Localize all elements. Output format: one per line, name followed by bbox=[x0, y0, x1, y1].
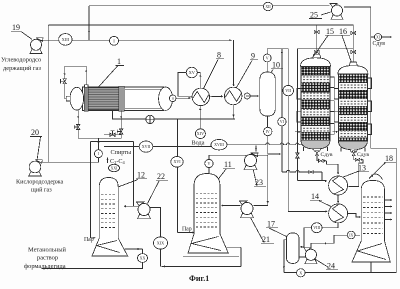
svg-text:Спирты: Спирты bbox=[111, 149, 132, 156]
svg-text:Фиг.1: Фиг.1 bbox=[189, 274, 209, 283]
valve double on left drop bbox=[77, 125, 80, 128]
wire steam arrow into column 11 bbox=[178, 232, 194, 234]
instrument circle IX bbox=[347, 231, 355, 239]
instrument circle on oxygen riser bbox=[94, 150, 102, 158]
pump 22 bbox=[138, 215, 151, 219]
wire pump 23 to pump 21 drop bbox=[254, 155, 268, 205]
reactor 15 bottom dome bbox=[301, 140, 330, 149]
reactor 16 band separators bbox=[338, 82, 367, 84]
wire arrow into reactor 16 left wall bbox=[333, 131, 338, 133]
reactor 1 shell shading lines bbox=[125, 88, 162, 90]
svg-text:XVIII: XVIII bbox=[214, 142, 224, 147]
wire reactor 16 blowoff tee with valve and arrow bbox=[354, 159, 363, 161]
wire vertical x=48 feed split down to oxygen line bbox=[47, 25, 49, 162]
svg-text:XXI: XXI bbox=[111, 166, 118, 170]
column 11 trays bbox=[196, 192, 218, 194]
svg-text:11: 11 bbox=[224, 160, 232, 169]
instrument circle V bbox=[263, 54, 271, 62]
wire V up to header A bbox=[266, 49, 268, 54]
heat exchanger 14 bbox=[329, 204, 348, 223]
instrument circle XII bbox=[263, 2, 272, 10]
valve on long vertical bbox=[296, 153, 299, 156]
svg-text:V: V bbox=[208, 161, 211, 166]
wire pump 24 discharge through IX to column 18 bbox=[311, 235, 347, 249]
vessel 10 bbox=[260, 72, 276, 116]
reactor 1 tube bundle bbox=[86, 88, 122, 110]
wire reactor 1 bottom left drop with valve bbox=[78, 110, 121, 138]
wire exchanger 13 inlet from long vertical bbox=[297, 180, 326, 182]
wire XV loop into exchanger 8 left bbox=[178, 73, 192, 97]
reactor 1 left head bbox=[70, 87, 84, 110]
reactor 15 side stubs left bbox=[297, 89, 301, 100]
wire II to exchanger 8 bbox=[176, 97, 190, 99]
wire pump 19 discharge line y=40 to exchanger 9 bbox=[42, 39, 232, 41]
wire column 18 bottom nozzle to return line bbox=[370, 262, 372, 273]
wire oxygen riser joining manifold bbox=[97, 138, 99, 162]
wire pump 25 discharge to right manifold bbox=[344, 7, 396, 273]
column 18 shell bbox=[361, 180, 384, 241]
instrument circle v above column 11 bbox=[208, 168, 210, 173]
svg-text:XII: XII bbox=[265, 5, 271, 9]
node pump19 outlet bbox=[42, 39, 49, 41]
valve stem on bypass bbox=[61, 80, 65, 82]
svg-text:Сдув: Сдув bbox=[357, 152, 369, 158]
instrument circle with cross on water line bbox=[146, 115, 154, 123]
wire IX to column 18 base bbox=[355, 234, 360, 236]
svg-text:12: 12 bbox=[137, 171, 145, 180]
svg-text:XIV: XIV bbox=[197, 131, 204, 136]
svg-text:9: 9 bbox=[251, 52, 255, 61]
svg-text:X: X bbox=[299, 270, 302, 275]
wire exchanger 14 to column 18 feed bbox=[348, 213, 361, 217]
instrument circle XIII bbox=[59, 34, 72, 46]
instrument circle X bbox=[297, 269, 306, 277]
reactor 1 left tube sheet flange bbox=[84, 86, 88, 111]
reactor 15 legs bbox=[303, 147, 305, 151]
wire steam drop to column 12 bbox=[90, 142, 92, 238]
wire vertical through XVI bbox=[177, 119, 179, 233]
svg-text:держащий газ: держащий газ bbox=[3, 65, 41, 72]
wire reactor 1 bypass up-over-left bbox=[65, 66, 87, 99]
wire pump 22 reflux into column 12 bbox=[125, 205, 138, 207]
svg-text:V: V bbox=[266, 55, 269, 60]
svg-text:XX: XX bbox=[140, 255, 146, 260]
svg-text:Метанольный: Метанольный bbox=[28, 247, 66, 254]
wire curved arrow into column 18 dome bbox=[372, 174, 383, 179]
svg-text:IV: IV bbox=[266, 130, 270, 134]
reactor 1 shell bbox=[83, 87, 164, 110]
wire exchanger 14 bottom through VIII to vessel 17 bbox=[322, 223, 338, 228]
wire pump 20 discharge oxygen line bbox=[42, 161, 99, 163]
column 11 skirt with reboiler zigzag bbox=[188, 234, 228, 253]
reactor 15 top cap nozzle bbox=[313, 54, 321, 58]
svg-text:VII: VII bbox=[285, 88, 291, 93]
wire reactor 15 feed drop with valves bbox=[316, 25, 318, 56]
column 18 skirt with reboiler zigzag bbox=[352, 241, 390, 262]
instrument circle XVI bbox=[171, 157, 183, 168]
pump 25 recycle compressor bbox=[331, 15, 343, 19]
wire column 11 bottoms step bbox=[227, 246, 242, 248]
instrument circle XX bbox=[138, 254, 148, 263]
wire VI line valve feed across bbox=[282, 170, 322, 172]
wire recycle gas top line y=6 to pump 25 bbox=[89, 5, 330, 7]
valve on reactor 15 feed upper bbox=[314, 30, 317, 33]
column 18 trays bbox=[363, 196, 382, 198]
vessel 17 separator bbox=[286, 233, 299, 263]
reactor 16 body with catalyst beds bbox=[338, 74, 367, 83]
instrument circle XV bbox=[186, 67, 197, 78]
svg-text:10: 10 bbox=[272, 61, 280, 70]
valve on reactor 16 feed lower bbox=[351, 50, 354, 53]
reactor 16 bottom dome bbox=[338, 141, 367, 150]
reactor 15 top dome bbox=[301, 58, 331, 67]
svg-text:Кислородсодержа: Кислородсодержа bbox=[16, 179, 63, 186]
wire vent arrow Sduv bbox=[382, 36, 391, 38]
wire drop into exchanger 9 top bbox=[233, 40, 235, 84]
wire reactor 16 feed drop with valves bbox=[352, 25, 354, 64]
wire vessel 10 bottom through IV bbox=[267, 116, 269, 127]
svg-text:XVII: XVII bbox=[142, 144, 151, 149]
wire VIII to vessel 17 inlet bbox=[300, 228, 311, 247]
valve on reactor 16 feed upper bbox=[351, 31, 354, 34]
instrument circle III bbox=[244, 93, 250, 99]
vessel 17 left stub to bottom line bbox=[284, 240, 287, 273]
wire VI vertical from header A bbox=[281, 49, 283, 172]
wire reactor 16 bottom drop with valve bbox=[353, 151, 355, 160]
wire segment B vertical with valve to exchanger 13 bbox=[296, 49, 298, 181]
wire IV down and right to VI line bbox=[268, 136, 280, 154]
svg-text:раствор: раствор bbox=[37, 255, 58, 262]
wire column 12 bottoms to XX bbox=[125, 248, 143, 250]
svg-text:XIX: XIX bbox=[157, 241, 164, 246]
reactor 16 bottom nozzle bbox=[350, 150, 357, 152]
wire reactor 15 bottom drop with valve bbox=[316, 151, 318, 161]
reactor 16 legs bbox=[340, 148, 342, 152]
wire jogged line from XVIII to reactor 15 bbox=[227, 143, 302, 145]
wire vertical x=89 recycle join with arrow bbox=[88, 6, 90, 40]
instrument circle I bbox=[109, 36, 118, 45]
wire left manifold line y=141.6 bbox=[91, 141, 134, 143]
svg-text:22: 22 bbox=[157, 172, 165, 181]
svg-text:XIII: XIII bbox=[62, 37, 70, 42]
instrument circle IV bbox=[264, 127, 272, 135]
instrument circle XXI bbox=[109, 164, 120, 171]
reactor 16 top dome bbox=[338, 66, 368, 75]
reactor 1 top nozzle bbox=[85, 85, 88, 88]
instrument circle XVIII bbox=[211, 140, 227, 150]
wire exchanger 13 to exchanger 14 bbox=[337, 195, 339, 203]
wire exchanger 9 water outlet drop bbox=[232, 105, 234, 119]
svg-text:21: 21 bbox=[262, 235, 270, 244]
pump 21 bbox=[241, 214, 254, 218]
instrument circle XIX bbox=[154, 237, 168, 249]
svg-text:VIII: VIII bbox=[313, 225, 321, 230]
wire arrow into reactor 15 left wall bbox=[295, 131, 300, 133]
svg-text:щий газ: щий газ bbox=[31, 187, 52, 194]
pump 20 oxygen gas blower bbox=[29, 172, 42, 176]
wire pump 22 suction from XIX riser bbox=[150, 208, 161, 237]
wire VII vertical from header A bbox=[287, 49, 289, 212]
heat exchanger 13 bbox=[329, 176, 348, 195]
wire vessel 10 top to V bbox=[266, 62, 268, 72]
wire bottom return line to circle X and vessel 17 bbox=[284, 272, 396, 274]
reactor 1 right tube sheet flange bbox=[119, 86, 125, 111]
svg-text:24: 24 bbox=[327, 262, 335, 271]
valve on bypass drop bbox=[63, 79, 66, 82]
wire III to vessel 10 bbox=[250, 95, 258, 97]
reactor 1 right nozzle to circle II bbox=[173, 97, 176, 99]
pump 23 bbox=[244, 166, 257, 170]
reactor 15 bottom nozzle bbox=[314, 149, 321, 151]
svg-text:IX: IX bbox=[349, 233, 353, 237]
svg-text:III: III bbox=[246, 94, 249, 98]
reactor 16 top cap nozzle bbox=[349, 62, 357, 66]
wire exchanger 8 to 9 bbox=[210, 95, 223, 97]
column 18 side product arrows bbox=[385, 199, 392, 201]
pump 19 hydrocarbon gas blower bbox=[30, 49, 42, 53]
wire pump 21 discharge into column 11 bbox=[222, 205, 241, 207]
heat exchanger 9 bbox=[224, 87, 242, 105]
instrument circle XI vent bbox=[371, 36, 374, 38]
valve with stem on alcohol stub bbox=[104, 134, 121, 136]
reactor 15 side stubs right bbox=[330, 77, 334, 88]
svg-text:XV: XV bbox=[189, 70, 196, 75]
svg-text:Углеводородсо: Углеводородсо bbox=[1, 57, 41, 64]
svg-text:Пар: Пар bbox=[84, 237, 94, 243]
wire reactor 1 mid nozzle to water line bbox=[113, 110, 236, 119]
reactor 16 side stubs left bbox=[334, 89, 338, 100]
column 12 trays bbox=[101, 194, 116, 196]
wire XX to formaldehyde product line bbox=[42, 262, 143, 268]
wire reactor 15 blowoff tee with valve and arrow bbox=[317, 160, 326, 162]
wire v circle to pump 23 suction bbox=[209, 155, 246, 159]
instrument circle VI bbox=[278, 118, 286, 126]
svg-text:XVI: XVI bbox=[173, 159, 181, 164]
column 12 shell bbox=[99, 178, 118, 239]
wire hydrocarbon feed line y=25 bbox=[48, 24, 353, 26]
svg-text:Сдув: Сдув bbox=[321, 152, 333, 158]
instrument circle VII bbox=[283, 85, 294, 95]
instrument circle VIII bbox=[311, 223, 322, 233]
svg-text:17: 17 bbox=[267, 220, 275, 229]
svg-text:Сдув: Сдув bbox=[373, 41, 386, 47]
valve double on right drop bbox=[120, 129, 123, 132]
pump 24 bbox=[305, 259, 317, 263]
column 12 skirt with reboiler zigzag bbox=[92, 238, 128, 256]
svg-text:1: 1 bbox=[117, 57, 121, 66]
wire bottom line to column 11 base bbox=[162, 265, 242, 267]
wire pump 23 discharge riser bbox=[255, 146, 257, 152]
reactor 1 right head bbox=[159, 87, 173, 110]
svg-text:18: 18 bbox=[385, 154, 393, 163]
wire vessel 17 bottoms to pump 24 bbox=[299, 256, 305, 258]
wire reactor 16 effluent to exchanger 13 right bbox=[349, 160, 364, 187]
wire drop from XVII line to pump 22 bbox=[133, 142, 135, 207]
wire header segment A y=48.7 from vessel 10 bbox=[267, 48, 288, 50]
wire XIX down to bottom line bbox=[160, 249, 162, 266]
instrument circle XIV bbox=[195, 129, 205, 139]
reactor 15 body with catalyst beds bbox=[301, 66, 330, 75]
wire XV right stub to exchanger 8 top riser bbox=[197, 72, 200, 74]
reactor 15 band separators bbox=[301, 74, 330, 76]
svg-text:13: 13 bbox=[358, 164, 366, 173]
svg-text:16: 16 bbox=[339, 27, 347, 36]
wire line through XVII bbox=[104, 145, 211, 147]
wire reactor 15 effluent to exchanger 13 top bbox=[326, 161, 338, 174]
svg-text:20: 20 bbox=[31, 128, 39, 137]
column 11 base plate bbox=[183, 255, 239, 257]
instrument circle II bbox=[169, 95, 176, 102]
wire into exchanger 14 left bbox=[288, 210, 327, 212]
reactor 1 left nozzle bbox=[66, 96, 70, 101]
svg-text:19: 19 bbox=[12, 23, 20, 32]
heat exchanger 8 bbox=[192, 88, 210, 106]
svg-text:Вода: Вода bbox=[192, 140, 205, 147]
svg-text:14: 14 bbox=[311, 192, 319, 201]
column 11 shell bbox=[194, 174, 220, 235]
svg-text:15: 15 bbox=[326, 27, 334, 36]
svg-text:Пар: Пар bbox=[182, 227, 192, 233]
wire header segment B y=48.7 bbox=[297, 48, 353, 50]
reactor 16 side stubs right bbox=[367, 78, 371, 89]
wire exchanger 8 water inlet riser / XIV line bbox=[199, 106, 201, 129]
instrument circle XVII bbox=[139, 141, 153, 152]
svg-text:формальдегида: формальдегида bbox=[24, 263, 66, 270]
valve on reactor 15 feed lower bbox=[314, 50, 317, 53]
svg-text:8: 8 bbox=[217, 51, 221, 60]
